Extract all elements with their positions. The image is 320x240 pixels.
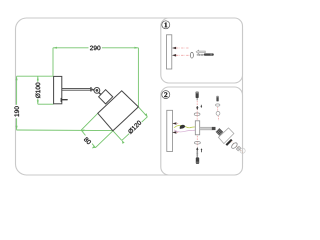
small nut	[216, 112, 220, 116]
extension tick bottom	[16, 129, 113, 132]
bulb axis dashed	[231, 141, 243, 153]
label 80	[82, 135, 94, 147]
shade	[98, 91, 139, 131]
dimension 290 right extension	[137, 48, 139, 107]
panel1 wall plate	[167, 35, 172, 69]
dimension D120 extension from bottom corner	[113, 131, 122, 141]
red dash down	[217, 107, 219, 111]
outer rounded border	[16, 18, 243, 175]
socket band in shade opening	[226, 140, 232, 146]
panel2 wall plate	[167, 110, 173, 151]
small side mark up	[201, 148, 203, 150]
dimension 80 extension from left corner	[81, 113, 98, 130]
bulb socket ellipse	[231, 142, 239, 150]
top red dashed line	[196, 101, 198, 113]
switch knob	[61, 98, 62, 102]
label 190	[13, 105, 19, 119]
small side mark down	[200, 105, 202, 107]
red arrow upper on plate	[172, 122, 176, 125]
red arrow lower on plate	[172, 131, 176, 134]
step number 2	[162, 91, 170, 99]
red dash to neck	[217, 116, 220, 121]
dimension 80 extension from bottom corner	[95, 131, 113, 148]
label 290	[89, 45, 102, 52]
green arrowheads	[16, 47, 148, 149]
bottom washer ring	[194, 142, 200, 145]
up arrow mark	[196, 147, 198, 151]
screw body	[204, 53, 214, 55]
label D120	[126, 119, 142, 135]
D100 bottom tick	[38, 103, 54, 105]
dimension 290 line	[16, 48, 147, 148]
arm end cap	[90, 87, 92, 91]
bar coupler	[212, 127, 216, 130]
wire connector	[179, 124, 185, 129]
link	[92, 88, 95, 91]
red arrow top	[172, 47, 176, 50]
dimension D100 line	[37, 76, 39, 104]
screw shank	[197, 54, 204, 56]
earth wire	[174, 125, 196, 128]
dimension D120 line	[122, 117, 148, 141]
dimension 190 line	[16, 76, 18, 130]
bulb thread	[236, 146, 241, 151]
lower red dash	[196, 136, 198, 147]
wall plate	[54, 76, 62, 103]
neck	[99, 90, 113, 104]
top screw	[196, 92, 199, 98]
bottom screw	[197, 151, 198, 158]
hollow arrow	[196, 50, 205, 53]
joint to neck link	[99, 92, 102, 94]
red dot lower	[177, 131, 179, 133]
panel2 neck dark	[216, 128, 224, 136]
panel2 shade	[218, 128, 234, 144]
bulb glass	[240, 148, 245, 153]
down arrow mark	[196, 106, 198, 110]
socket body	[195, 121, 199, 135]
joint pin	[96, 89, 99, 92]
joint circle	[94, 88, 100, 94]
red guide line bottom	[176, 54, 190, 56]
panel 1 frame	[161, 18, 243, 83]
step number 1	[162, 21, 170, 29]
dimension 290 left extension	[52, 48, 54, 76]
red guide line top	[176, 47, 189, 49]
violet wire	[174, 130, 196, 132]
small top right screw	[216, 96, 218, 102]
extension tick top	[17, 75, 54, 77]
panel 2 frame	[161, 87, 243, 175]
label D100	[35, 82, 42, 99]
washer ring	[190, 52, 193, 58]
socket arm bar	[200, 127, 212, 130]
small washer	[216, 104, 220, 106]
red dot upper	[177, 123, 179, 125]
red arrow bottom	[172, 54, 176, 57]
top washer ring	[194, 113, 200, 116]
dimension D120 extension from right corner	[138, 107, 147, 117]
arm	[62, 88, 91, 90]
dimension 80 line	[81, 130, 95, 148]
